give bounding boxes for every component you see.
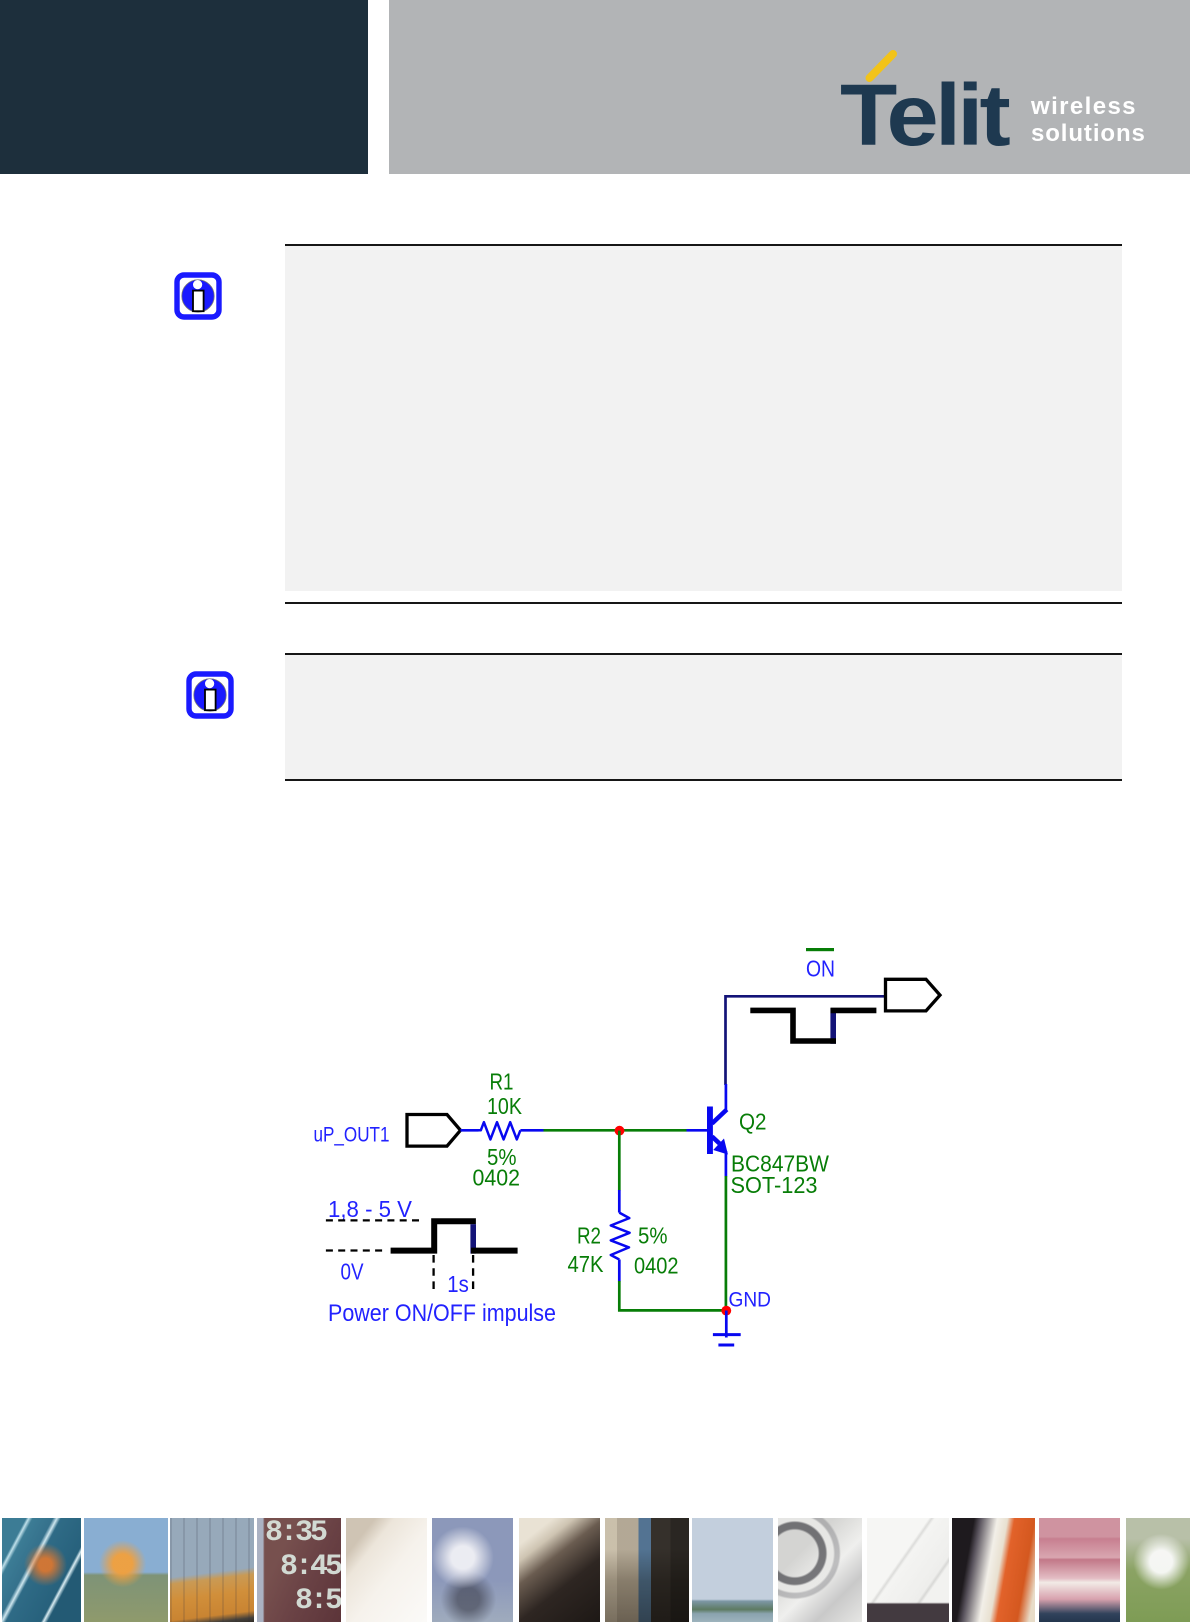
dashed marker left [432, 1255, 434, 1292]
photo tile 8 [605, 1518, 689, 1622]
resistor R1 zigzag [479, 1122, 521, 1139]
wire emitter blue [725, 1151, 728, 1177]
note box 2 bottom border [285, 779, 1122, 781]
transistor Q2 emitter arrowhead [715, 1140, 727, 1153]
dashed marker right [472, 1255, 474, 1292]
note box 1 bottom rule [285, 602, 1122, 604]
wire lead blue below R2 [618, 1260, 621, 1282]
wire collector bright blue vertical [725, 1084, 728, 1110]
impulse rising pulse [391, 1221, 476, 1250]
photo tile 14 [1126, 1518, 1190, 1622]
wire node to base blue [687, 1129, 708, 1132]
svg-text:5%: 5% [638, 1222, 668, 1248]
svg-text:0402: 0402 [473, 1165, 521, 1191]
wire node down green [618, 1131, 621, 1191]
photo tile 10 [778, 1518, 862, 1622]
note box 1 top border [285, 244, 1122, 246]
input connector (uP_OUT1 pad) [407, 1115, 461, 1147]
junction node dot [615, 1126, 625, 1136]
svg-text:SOT-123: SOT-123 [731, 1172, 818, 1198]
transistor Q2 base bar [707, 1107, 713, 1155]
note box 2 top border [285, 653, 1122, 655]
node ON overline [806, 948, 834, 951]
photo tile 12 [952, 1518, 1035, 1622]
svg-text:GND: GND [729, 1289, 772, 1312]
impulse falling edge navy [470, 1224, 476, 1253]
wire green R2 to gnd rail [619, 1281, 726, 1310]
transistor Q2 emitter diagonal [712, 1137, 720, 1144]
info icon 2 [186, 671, 234, 719]
wire connector to R1 [461, 1129, 479, 1132]
svg-text:10K: 10K [487, 1093, 523, 1119]
resistor R2 zigzag [611, 1213, 630, 1260]
wire collector navy horizontal to output connector [726, 996, 886, 1085]
footer photo strip [0, 1518, 1190, 1622]
ground symbol [725, 1311, 728, 1338]
photo tile 4 [257, 1518, 341, 1622]
svg-text:Power ON/OFF impulse: Power ON/OFF impulse [328, 1300, 556, 1327]
photo tile 13 [1039, 1518, 1120, 1622]
impulse baseline right [471, 1248, 518, 1254]
output connector (ON pad) [886, 979, 941, 1011]
wire emitter green down to gnd [725, 1176, 728, 1310]
yellow slash [870, 54, 894, 78]
transistor Q2 collector diagonal [712, 1110, 727, 1124]
svg-text:0402: 0402 [634, 1253, 679, 1279]
note box 2 gray fill [285, 655, 1122, 779]
photo tile 6 [432, 1518, 513, 1622]
svg-text:1,8 - 5 V: 1,8 - 5 V [328, 1196, 413, 1222]
photo tile 3 [170, 1518, 254, 1622]
svg-text:R1: R1 [490, 1069, 514, 1095]
photo tile 5 [346, 1518, 427, 1622]
ON impulse waveform falling-rising pulse [830, 1008, 836, 1044]
svg-text:1s: 1s [447, 1271, 469, 1297]
svg-text:uP_OUT1: uP_OUT1 [314, 1124, 390, 1147]
photo tile 1 [2, 1518, 81, 1622]
svg-text:0V: 0V [341, 1259, 365, 1285]
header gray block [389, 0, 1190, 174]
header dark navy block [0, 0, 368, 174]
dashed level line high [326, 1219, 421, 1221]
photo tile 9 [692, 1518, 773, 1622]
Telit logo [389, 0, 1190, 174]
svg-text:ON: ON [806, 956, 835, 982]
wire node green horizontal [544, 1129, 687, 1132]
photo tile 11 [867, 1518, 949, 1622]
wire lead blue to R2 [618, 1190, 621, 1213]
svg-text:47K: 47K [568, 1251, 605, 1277]
photo tile 7 [519, 1518, 600, 1622]
photo tile 2 [84, 1518, 168, 1622]
svg-text:Q2: Q2 [739, 1109, 767, 1135]
info icon 1 [174, 272, 222, 320]
wire R1 to node [520, 1129, 543, 1132]
node GND junction dot [721, 1306, 731, 1316]
note box 1 gray fill [285, 246, 1122, 591]
dashed level line low [326, 1249, 383, 1251]
svg-text:R2: R2 [577, 1222, 601, 1248]
